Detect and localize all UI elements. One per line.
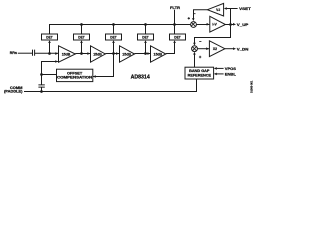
- wire FLTR to rail and DET5 output: [174, 10, 176, 34]
- svg-text:15dB: 15dB: [93, 52, 102, 56]
- arrowhead V_UP output: [233, 23, 236, 26]
- node junction chain/DET2 tap: [80, 52, 83, 55]
- capacitor input coupling C1: [33, 50, 35, 56]
- wire S1 to I-V: [196, 24, 209, 26]
- svg-text:DET: DET: [142, 36, 149, 40]
- wire S2 to X2: [197, 48, 209, 50]
- arrowhead into bandgap from ENBL: [214, 73, 217, 76]
- svg-text:REFERENCE: REFERENCE: [188, 73, 212, 77]
- svg-text:DET: DET: [46, 36, 53, 40]
- op-amp V-I converter: [207, 3, 223, 16]
- arrowhead into bandgap from VPOS: [214, 67, 217, 70]
- arrowhead into DET4: [144, 40, 147, 43]
- arrowhead V_DN output: [233, 47, 236, 50]
- svg-text:VPOS: VPOS: [225, 67, 237, 71]
- op-amp I-V converter: [210, 16, 226, 32]
- node junction chain/DET3 tap/offset tap: [112, 52, 115, 55]
- arrowhead into offset comp input: [93, 75, 96, 78]
- svg-text:DET: DET: [174, 36, 181, 40]
- arrowhead into amp3 input: [116, 52, 119, 55]
- svg-text:(PADDLE): (PADDLE): [4, 90, 23, 94]
- amplifier A2 15dB: [91, 46, 106, 62]
- wire X2 output: [225, 48, 233, 50]
- detector DET4: [138, 34, 154, 40]
- capacitor offset filter C2: [38, 75, 44, 92]
- node junction V_UP branch: [229, 23, 232, 26]
- amplifier A4 15dB: [151, 46, 166, 62]
- pin VSET: [227, 7, 252, 11]
- pin COMM (PADDLE) label: [4, 86, 23, 94]
- arrowhead into DET2: [80, 40, 83, 43]
- wire input chain segment to amp1: [35, 52, 58, 54]
- svg-text:15dB: 15dB: [122, 52, 131, 56]
- wire I-V output to V_UP: [225, 24, 233, 26]
- wire top rail: [50, 25, 191, 35]
- arrowhead into S1 top: [192, 18, 195, 21]
- svg-text:V-I: V-I: [216, 8, 220, 12]
- detector DET3: [106, 34, 122, 40]
- node junction offset/cap: [40, 73, 43, 76]
- arrowhead into X2 input: [206, 47, 209, 50]
- wire DET2 output: [81, 25, 83, 35]
- wire amp3 to amp4: [135, 53, 151, 55]
- block offset compensation: [57, 69, 94, 81]
- wire bandgap to S2: [194, 55, 196, 68]
- label minus S2: [199, 41, 201, 43]
- wire DET4 tap: [145, 41, 147, 54]
- wire amp2 to amp3: [105, 53, 119, 55]
- svg-text:RFIN: RFIN: [10, 51, 17, 55]
- node junction COMM/cap: [40, 90, 43, 93]
- wire V-I output to S1: [194, 10, 208, 19]
- summing node S1: [191, 22, 197, 28]
- svg-text:DET: DET: [78, 36, 85, 40]
- arrowhead into S2 top: [193, 43, 196, 46]
- svg-text:DET: DET: [110, 36, 117, 40]
- pin VPOS: [217, 67, 237, 71]
- wire RFIN lead: [18, 52, 32, 54]
- node junction chain/DET1 tap: [48, 52, 51, 55]
- arrowhead into DET1: [48, 40, 51, 43]
- svg-text:01086-001: 01086-001: [250, 80, 254, 93]
- wire offset comp to amp1 lower input: [42, 62, 58, 75]
- wire amp4 output to DET5: [166, 41, 175, 54]
- wire offset comp input tap: [93, 54, 114, 77]
- wire DET3 tap: [113, 41, 115, 54]
- pin ENBL: [217, 72, 237, 76]
- detector DET5: [170, 34, 186, 40]
- svg-text:COMPENSATION: COMPENSATION: [57, 76, 93, 80]
- node junction rail/DET4: [144, 23, 147, 26]
- wire amp1 to amp2: [75, 53, 90, 55]
- arrowhead into DET3: [112, 40, 115, 43]
- op-amp X2: [209, 41, 225, 57]
- svg-text:FLTR: FLTR: [170, 6, 180, 10]
- wire VSET branch down to S2: [195, 9, 231, 45]
- arrowhead into DET5: [173, 40, 176, 43]
- node junction rail/DET3: [112, 23, 115, 26]
- svg-text:I-V: I-V: [212, 23, 217, 27]
- label plus S1: [188, 17, 190, 19]
- wire DET3 output: [113, 25, 115, 35]
- svg-text:V_UP: V_UP: [237, 23, 249, 27]
- label plus S2: [199, 56, 201, 58]
- detector DET1: [42, 34, 58, 40]
- arrowhead into V-I from VSET: [224, 7, 227, 10]
- arrowhead into I-V input: [207, 23, 210, 26]
- arrowhead into amp4 input: [147, 52, 150, 55]
- detector DET2: [74, 34, 90, 40]
- arrowhead into amp1 upper input: [55, 52, 58, 55]
- wire DET4 output: [145, 25, 147, 35]
- block band gap reference: [185, 67, 214, 79]
- wire DET1 tap: [49, 41, 51, 54]
- svg-text:15dB: 15dB: [154, 52, 163, 56]
- label minus S1: [193, 13, 195, 15]
- wire COMM rail: [24, 79, 197, 92]
- wire offset comp output: [42, 74, 57, 76]
- svg-text:AD8314: AD8314: [131, 74, 150, 80]
- svg-text:ENBL: ENBL: [225, 72, 237, 76]
- node junction chain/DET4 tap: [144, 52, 147, 55]
- summing node S2: [192, 46, 198, 52]
- svg-text:15dB: 15dB: [62, 52, 71, 56]
- amplifier A1 15dB: [59, 46, 76, 62]
- wire DET2 tap: [81, 41, 83, 54]
- node junction rail/DET2: [80, 23, 83, 26]
- arrowhead into amp2 input: [87, 52, 90, 55]
- amplifier A3 15dB: [120, 46, 135, 62]
- arrowhead into S2 bottom: [193, 52, 196, 55]
- node junction rail/FLTR/DET5: [173, 23, 176, 26]
- svg-text:X2: X2: [213, 47, 217, 51]
- svg-text:VSET: VSET: [239, 7, 251, 11]
- arrowhead into amp1 lower input: [55, 60, 58, 63]
- svg-text:V_DN: V_DN: [237, 48, 249, 52]
